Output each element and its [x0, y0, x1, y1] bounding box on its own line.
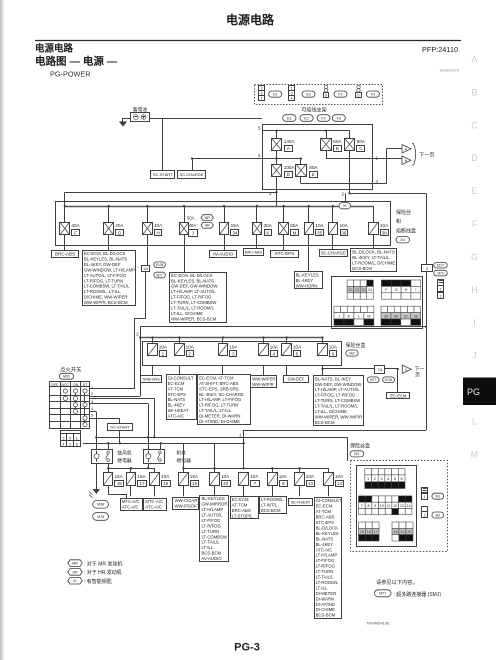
svg-text:EC-ECM: EC-ECM: [390, 393, 407, 398]
svg-text:.: .: [110, 503, 111, 508]
svg-text:10A: 10A: [380, 223, 389, 228]
svg-text:K: K: [348, 314, 351, 318]
svg-text:50A :: 50A :: [187, 215, 197, 220]
svg-text:EKS00UC3: EKS00UC3: [440, 69, 460, 73]
svg-text:LT-ILL, D/CHIME: LT-ILL, D/CHIME: [315, 409, 347, 414]
svg-text:BL-KEYLES: BL-KEYLES: [296, 272, 319, 277]
svg-text:EC-ECM: EC-ECM: [232, 497, 249, 502]
svg-text:F3: F3: [371, 92, 375, 96]
svg-text:DI-AT/IND, DI-CHIME: DI-AT/IND, DI-CHIME: [199, 419, 240, 424]
svg-text:AV-AUDIO: AV-AUDIO: [202, 556, 223, 561]
svg-text:5: 5: [325, 93, 327, 97]
svg-text:: 对于 MR 发动机: : 对于 MR 发动机: [84, 560, 122, 567]
svg-text:J: J: [472, 351, 477, 361]
svg-text:10A: 10A: [250, 474, 259, 479]
svg-text:LT-F/FOG, LT-R/FOG: LT-F/FOG, LT-R/FOG: [171, 295, 211, 300]
svg-text:A: A: [471, 55, 477, 65]
svg-text:LT-TAIL/L, LT-ROOM/L: LT-TAIL/L, LT-ROOM/L: [171, 306, 215, 311]
svg-text:PG-POWER: PG-POWER: [50, 70, 91, 79]
svg-text:点火开关: 点火开关: [60, 365, 82, 373]
svg-text:MR: MR: [72, 561, 78, 565]
svg-text:J: J: [338, 314, 340, 318]
svg-text:BL-4KEY: BL-4KEY: [168, 403, 186, 408]
svg-text:IK: IK: [73, 579, 77, 583]
svg-text:16: 16: [163, 481, 168, 486]
svg-text:I: I: [415, 288, 416, 292]
svg-text:LT-TAIL/L: LT-TAIL/L: [316, 575, 335, 580]
svg-text:15: 15: [360, 530, 364, 534]
svg-text:E107: E107: [437, 264, 445, 268]
svg-text:BRC-ABS: BRC-ABS: [316, 515, 335, 520]
svg-text:J: J: [192, 231, 194, 236]
svg-text:15A: 15A: [190, 474, 199, 479]
svg-text:保险丝: 保险丝: [396, 209, 411, 216]
svg-text:LT-TAIL/L, LT-ROOM/L: LT-TAIL/L, LT-ROOM/L: [315, 404, 359, 409]
svg-text:BL-4KEY: BL-4KEY: [316, 542, 334, 547]
svg-text:12: 12: [393, 504, 397, 508]
svg-text:LT-TURN: LT-TURN: [202, 529, 220, 534]
svg-text:DI-METER, DI-WARN: DI-METER, DI-WARN: [199, 414, 240, 419]
svg-text:2: 2: [440, 294, 442, 298]
svg-text:GI-CONSULT: GI-CONSULT: [316, 498, 342, 503]
svg-text:LT-TAIL/L: LT-TAIL/L: [202, 540, 221, 545]
svg-text:80A: 80A: [309, 165, 318, 170]
svg-text:GW-DEF, GW-WINDOW: GW-DEF, GW-WINDOW: [315, 382, 361, 387]
svg-text:AT-TCM: AT-TCM: [168, 386, 184, 391]
svg-text:37: 37: [404, 314, 408, 318]
svg-text:BL-D/LOCK: BL-D/LOCK: [316, 525, 339, 530]
svg-text:M77: M77: [370, 378, 376, 382]
svg-text:B: B: [471, 87, 477, 97]
svg-text:STC-EPS: STC-EPS: [275, 251, 295, 256]
svg-text:保险丝盒: 保险丝盒: [350, 442, 370, 449]
svg-text:M20: M20: [63, 375, 70, 379]
svg-text:BL-4KEY, GW-DEF: BL-4KEY, GW-DEF: [84, 262, 121, 267]
svg-text:STC-EPS: STC-EPS: [316, 520, 335, 525]
svg-text:DI-METER: DI-METER: [316, 591, 337, 596]
svg-text:MTC-A/C: MTC-A/C: [145, 499, 163, 504]
svg-text:LT-ILL, D/CHIME: LT-ILL, D/CHIME: [171, 311, 203, 316]
svg-text:34: 34: [232, 230, 237, 235]
svg-text:10: 10: [380, 504, 384, 508]
svg-text:60A: 60A: [333, 139, 342, 144]
svg-text:10A: 10A: [186, 345, 195, 350]
svg-text:3: 3: [291, 92, 293, 96]
svg-text:页: 页: [415, 373, 420, 379]
svg-text:A: A: [287, 146, 290, 151]
svg-text:BCS-BCM: BCS-BCM: [316, 613, 336, 618]
svg-text:LT-H/LAMP, LT-F/FOG: LT-H/LAMP, LT-F/FOG: [199, 397, 241, 402]
svg-text:LT-H/LAMP, LT-AUTO/L: LT-H/LAMP, LT-AUTO/L: [315, 387, 360, 392]
svg-text:7: 7: [361, 504, 363, 508]
svg-text:BCS-BCM: BCS-BCM: [352, 266, 372, 271]
svg-text:AT-TCM: AT-TCM: [232, 502, 248, 507]
svg-text:ATC-A/C: ATC-A/C: [122, 505, 139, 510]
svg-text:DI-AT/IND: DI-AT/IND: [316, 602, 335, 607]
svg-text:BL-4KEY: BL-4KEY: [296, 278, 314, 283]
svg-text:LT-ROOM/L: LT-ROOM/L: [316, 580, 339, 585]
svg-text:BL-NATS: BL-NATS: [168, 397, 186, 402]
svg-text:WW-P/SOKT: WW-P/SOKT: [175, 504, 200, 509]
svg-text:SRB-SRS: SRB-SRS: [143, 376, 161, 381]
svg-text:LT-TURN: LT-TURN: [316, 569, 334, 574]
svg-text:M1: M1: [354, 452, 359, 456]
svg-text:M79: M79: [437, 271, 443, 275]
svg-text:E4: E4: [400, 238, 405, 242]
svg-text:BL-KEYLES: BL-KEYLES: [316, 531, 339, 536]
svg-text:SC-CHARGE: SC-CHARGE: [321, 251, 346, 256]
svg-text:WW-WIPER: WW-WIPER: [252, 376, 275, 381]
svg-text:8: 8: [367, 504, 369, 508]
svg-text:MTC-A/C: MTC-A/C: [122, 499, 140, 504]
svg-text:PG: PG: [467, 387, 480, 397]
svg-text:BRC-ABS: BRC-ABS: [232, 508, 251, 513]
svg-text:E105: E105: [156, 263, 164, 267]
svg-text:: 超多路连接器 (SMJ): : 超多路连接器 (SMJ): [394, 591, 442, 598]
svg-text:LT-STOP/L: LT-STOP/L: [232, 513, 254, 518]
svg-text:F2: F2: [321, 116, 325, 120]
svg-text:1: 1: [261, 97, 263, 101]
svg-text:7A: 7A: [377, 367, 382, 372]
svg-text:13: 13: [308, 481, 313, 486]
svg-text:10A: 10A: [335, 474, 344, 479]
svg-text:PFP:24110: PFP:24110: [422, 45, 458, 54]
svg-text:LT-ROOM/L, LT-ILL: LT-ROOM/L, LT-ILL: [84, 289, 121, 294]
svg-text:LT-R/FOG, LT-TURN: LT-R/FOG, LT-TURN: [199, 403, 238, 408]
svg-text:BL-4KEY, LT-TAIL/L: BL-4KEY, LT-TAIL/L: [352, 255, 390, 260]
svg-text:60A: 60A: [290, 223, 299, 228]
svg-text:LT-INT/L: LT-INT/L: [261, 502, 278, 507]
svg-text:10A: 10A: [306, 474, 315, 479]
svg-text:140A: 140A: [284, 139, 296, 144]
svg-text:GW-MIRROR: GW-MIRROR: [202, 502, 228, 507]
svg-text:LT-H/LAMP: LT-H/LAMP: [316, 553, 338, 558]
svg-text:F: F: [472, 219, 478, 229]
svg-text:LT-H/LAMP, LT-AUTO/L: LT-H/LAMP, LT-AUTO/L: [171, 289, 216, 294]
svg-text:G: G: [471, 252, 478, 262]
svg-text:1: 1: [76, 436, 78, 440]
svg-text:M2: M2: [435, 513, 440, 517]
svg-text:35: 35: [317, 230, 322, 235]
svg-text:38: 38: [414, 314, 418, 318]
svg-text:M: M: [471, 449, 479, 459]
svg-text:20: 20: [407, 530, 411, 534]
svg-text:LT-AUTO/L, LT-F/FOG: LT-AUTO/L, LT-F/FOG: [84, 273, 126, 278]
svg-text:LT-F/FOG, LT-R/FOG: LT-F/FOG, LT-R/FOG: [315, 393, 355, 398]
svg-text:32: 32: [355, 288, 359, 292]
svg-text:HR: HR: [72, 570, 78, 574]
svg-text:熔断线盒: 熔断线盒: [396, 228, 416, 235]
svg-text:LT-AUTO/L: LT-AUTO/L: [202, 512, 224, 517]
svg-text:SC-START: SC-START: [153, 172, 173, 177]
svg-text:L: L: [358, 314, 360, 318]
svg-text:40A: 40A: [154, 223, 163, 228]
svg-text:100A: 100A: [284, 165, 296, 170]
svg-text:9: 9: [374, 504, 376, 508]
svg-text:SE-HSEAT: SE-HSEAT: [291, 499, 311, 504]
svg-text:M77: M77: [156, 273, 162, 277]
svg-text:EC-ECM, BL-D/LOCK: EC-ECM, BL-D/LOCK: [84, 251, 126, 256]
svg-text:G: G: [395, 288, 398, 292]
svg-text:LT-COMBSW: LT-COMBSW: [202, 534, 227, 539]
svg-text:附件: 附件: [177, 450, 187, 457]
svg-text:E: E: [312, 172, 315, 177]
svg-text:19: 19: [192, 481, 197, 486]
svg-text:1: 1: [440, 288, 442, 292]
svg-text:C: C: [471, 120, 478, 130]
svg-text:40A :: 40A :: [189, 223, 199, 228]
svg-text:BCS-BCM: BCS-BCM: [202, 551, 222, 556]
svg-text:K: K: [266, 230, 269, 235]
svg-text:BL-KEYLES, BL-NATS: BL-KEYLES, BL-NATS: [84, 256, 127, 261]
svg-text:STC-EPS, SRB-SRS: STC-EPS, SRB-SRS: [199, 386, 239, 391]
svg-text:M2: M2: [349, 351, 354, 355]
svg-text:和: 和: [396, 218, 401, 225]
svg-text:DI-WARN: DI-WARN: [316, 596, 335, 601]
svg-text:BRC-ABS: BRC-ABS: [245, 250, 263, 255]
svg-text:GI-CONSULT: GI-CONSULT: [168, 375, 194, 380]
svg-text:HR: HR: [205, 224, 211, 228]
svg-text:17: 17: [140, 481, 145, 486]
svg-text:10A: 10A: [293, 345, 302, 350]
svg-text:36: 36: [341, 230, 346, 235]
svg-text:GW-DEF: GW-DEF: [288, 376, 305, 381]
svg-text:15A: 15A: [137, 474, 146, 479]
svg-text:LT-ILL: LT-ILL: [202, 545, 214, 550]
svg-text:5: 5: [91, 413, 93, 418]
svg-text:LT-ROOM/L: LT-ROOM/L: [261, 497, 284, 502]
svg-text:STC-EPS: STC-EPS: [168, 392, 187, 397]
svg-text:1: 1: [291, 87, 293, 91]
svg-text:EC-ECM, BL-D/LOCK: EC-ECM, BL-D/LOCK: [171, 273, 213, 278]
svg-text:WW-CIGAR: WW-CIGAR: [175, 498, 198, 503]
svg-text:AT-SHIFT, BRC-ABS: AT-SHIFT, BRC-ABS: [199, 381, 239, 386]
svg-text:14: 14: [337, 481, 342, 486]
svg-text:17: 17: [374, 530, 378, 534]
svg-text:LT-R/FOG: LT-R/FOG: [316, 564, 335, 569]
svg-text:31: 31: [348, 288, 352, 292]
svg-text:LT-R/FOG: LT-R/FOG: [202, 523, 221, 528]
svg-text:15A: 15A: [231, 223, 240, 228]
svg-text:E2: E2: [306, 92, 311, 96]
svg-text:WW-HORN: WW-HORN: [296, 283, 318, 288]
svg-text:BL-NATS, BL-IKEY: BL-NATS, BL-IKEY: [315, 376, 351, 381]
svg-text:1: 1: [424, 495, 426, 499]
svg-text:LT-COMBSW, LT-TAIL/L: LT-COMBSW, LT-TAIL/L: [84, 284, 130, 289]
svg-text:WW-WIP/R, BCS-BCM: WW-WIP/R, BCS-BCM: [84, 300, 128, 305]
svg-text:ATC-A/C: ATC-A/C: [168, 414, 185, 419]
svg-text:6: 6: [358, 93, 360, 97]
svg-text:BL-KEYLES, BL-NATS: BL-KEYLES, BL-NATS: [171, 278, 214, 283]
svg-text:SC-START: SC-START: [110, 424, 130, 429]
svg-text:3: 3: [261, 92, 263, 96]
svg-text:10A: 10A: [221, 474, 230, 479]
svg-text:E1: E1: [287, 116, 292, 120]
svg-text:BRC-ABS: BRC-ABS: [55, 251, 75, 256]
svg-text:C: C: [359, 146, 362, 151]
svg-text:E105: E105: [385, 378, 393, 382]
svg-text:鼓风机: 鼓风机: [117, 450, 132, 457]
svg-text:TKWM6419E: TKWM6419E: [366, 621, 390, 626]
svg-text:F2: F2: [338, 92, 342, 96]
svg-text:H: H: [405, 288, 408, 292]
svg-text:ATC-A/C: ATC-A/C: [316, 547, 333, 552]
svg-text:E1: E1: [273, 92, 278, 96]
svg-text:35: 35: [384, 314, 388, 318]
svg-text:M: M: [367, 314, 370, 318]
svg-text:10A: 10A: [340, 223, 349, 228]
svg-text:10A: 10A: [329, 345, 338, 350]
svg-text:14: 14: [407, 504, 411, 508]
svg-text:10A: 10A: [161, 474, 170, 479]
svg-text:4: 4: [63, 443, 65, 447]
svg-text:18: 18: [393, 530, 397, 534]
svg-text:M77: M77: [379, 592, 386, 596]
svg-text:: 对于 HR 发动机: : 对于 HR 发动机: [84, 569, 122, 576]
svg-text:DI-CHIME: DI-CHIME: [316, 607, 336, 612]
svg-text:13: 13: [400, 504, 404, 508]
svg-text:34: 34: [368, 288, 372, 292]
svg-text:1A: 1A: [143, 266, 148, 271]
svg-text:AT-TCM: AT-TCM: [316, 509, 332, 514]
svg-text:M38: M38: [97, 503, 104, 507]
svg-text:BL-KEYLES: BL-KEYLES: [202, 496, 225, 501]
svg-text:LT-TURN, LT-COMBSW: LT-TURN, LT-COMBSW: [315, 398, 360, 403]
svg-text:可熔线支架: 可熔线支架: [301, 106, 326, 113]
svg-text:11: 11: [387, 504, 391, 508]
svg-text:D: D: [287, 172, 290, 177]
svg-text:电路图 — 电源 —: 电路图 — 电源 —: [35, 55, 118, 68]
svg-text:2: 2: [91, 391, 93, 396]
svg-text:20: 20: [223, 481, 228, 486]
svg-text:SC-CHARGE: SC-CHARGE: [179, 172, 203, 177]
svg-text:10A: 10A: [229, 345, 238, 350]
svg-text:40A: 40A: [71, 223, 80, 228]
svg-text:: 有智能钥匙: : 有智能钥匙: [84, 578, 112, 585]
svg-text:4: 4: [291, 97, 293, 101]
svg-text:D: D: [471, 153, 478, 163]
svg-text:电源电路: 电源电路: [226, 12, 275, 27]
svg-text:M1: M1: [435, 495, 440, 499]
svg-text:I: I: [473, 318, 476, 328]
svg-text:保险丝盒: 保险丝盒: [346, 342, 366, 349]
svg-text:ATC-A/C: ATC-A/C: [145, 505, 162, 510]
svg-text:D/CHIME, WW-WIPER: D/CHIME, WW-WIPER: [84, 295, 128, 300]
svg-text:BL-D/LOCK, BL-NATS: BL-D/LOCK, BL-NATS: [352, 250, 395, 255]
svg-text:LT-ILL: LT-ILL: [316, 585, 328, 590]
svg-text:LT-F/FOG: LT-F/FOG: [202, 518, 221, 523]
svg-text:19: 19: [400, 530, 404, 534]
svg-text:LT-TAIL/L, LT-ILL: LT-TAIL/L, LT-ILL: [199, 408, 232, 413]
svg-text:L: L: [472, 416, 477, 426]
svg-text:AV-AUDIO: AV-AUDIO: [213, 251, 234, 256]
svg-text:BL-4KEY, SC-CHARGE: BL-4KEY, SC-CHARGE: [199, 392, 244, 397]
svg-text:请参见以下内容。: 请参见以下内容。: [376, 578, 418, 586]
svg-text:B: B: [336, 146, 339, 151]
svg-text:BCS-BCM: BCS-BCM: [315, 420, 335, 425]
svg-text:M78: M78: [97, 515, 104, 519]
svg-text:蓄电池: 蓄电池: [133, 106, 148, 113]
svg-text:LT-R/FOG, LT-TURN: LT-R/FOG, LT-TURN: [84, 278, 123, 283]
svg-text:EC-ECM: EC-ECM: [316, 504, 333, 509]
svg-text:LT-H/LAMP: LT-H/LAMP: [202, 507, 224, 512]
svg-text:F3: F3: [337, 116, 341, 120]
svg-text:H: H: [157, 230, 160, 235]
svg-text:10A: 10A: [315, 223, 324, 228]
svg-text:10A: 10A: [159, 345, 168, 350]
svg-text:15: 15: [117, 481, 122, 486]
svg-text:16: 16: [367, 530, 371, 534]
svg-text:10A: 10A: [279, 474, 288, 479]
svg-text:电源电路: 电源电路: [35, 43, 74, 55]
svg-text:WW-WIP/R: WW-WIP/R: [252, 382, 274, 387]
svg-text:C: C: [405, 368, 408, 372]
svg-text:GW-WINDOW, LT-H/LAMP: GW-WINDOW, LT-H/LAMP: [84, 267, 135, 272]
svg-text:BCS-BCM: BCS-BCM: [261, 508, 281, 513]
svg-text:30A: 30A: [264, 223, 273, 228]
svg-text:36: 36: [394, 314, 398, 318]
svg-text:33: 33: [361, 288, 365, 292]
svg-text:H: H: [471, 285, 478, 295]
svg-text:EC-ECM, AT-TCM: EC-ECM, AT-TCM: [199, 375, 234, 380]
svg-text:LT-ROOM/L, D/CHIME: LT-ROOM/L, D/CHIME: [352, 261, 395, 266]
svg-text:BL-NATS: BL-NATS: [316, 536, 334, 541]
svg-text:2: 2: [261, 87, 263, 91]
svg-text:5: 5: [69, 436, 71, 440]
svg-text:GW-DEF, GW-WINDOW: GW-DEF, GW-WINDOW: [171, 284, 217, 289]
svg-text:M: M: [293, 230, 297, 235]
svg-text:E2: E2: [304, 116, 309, 120]
svg-text:E: E: [471, 186, 477, 196]
svg-text:3: 3: [63, 436, 65, 440]
svg-text:WW-WIPER, WW-WIP/R: WW-WIPER, WW-WIP/R: [315, 414, 362, 419]
svg-text:SE-HSEAT: SE-HSEAT: [168, 408, 189, 413]
svg-text:LT-F/FOG: LT-F/FOG: [316, 558, 335, 563]
svg-text:继电器: 继电器: [117, 457, 132, 464]
svg-text:10A: 10A: [270, 345, 279, 350]
svg-text:F: F: [74, 230, 77, 235]
svg-text:MR: MR: [204, 216, 210, 220]
svg-text:LT-TURN, LT-COMBSW: LT-TURN, LT-COMBSW: [171, 300, 216, 305]
svg-text:15A: 15A: [115, 474, 124, 479]
svg-text:2: 2: [69, 443, 71, 447]
svg-text:6: 6: [76, 443, 78, 447]
svg-text:EC-ECM: EC-ECM: [168, 381, 185, 386]
svg-text:40A: 40A: [115, 223, 124, 228]
svg-text:38: 38: [382, 230, 387, 235]
svg-text:2: 2: [424, 514, 426, 518]
svg-text:WW-WIPER, BCS-BCM: WW-WIPER, BCS-BCM: [171, 316, 217, 321]
svg-text:下一页: 下一页: [419, 152, 435, 159]
svg-text:PG-3: PG-3: [234, 642, 260, 654]
svg-text:80A: 80A: [357, 139, 366, 144]
svg-text:G: G: [118, 230, 122, 235]
